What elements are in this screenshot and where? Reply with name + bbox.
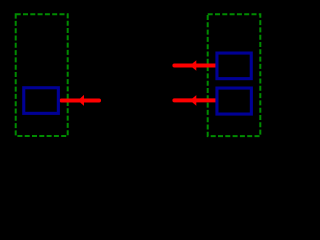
wire: lower arrow out of right block <box>174 95 215 106</box>
right upper block (blue) <box>217 53 251 79</box>
right module dashed boundary box <box>208 14 261 136</box>
wire: arrow into left block <box>61 95 99 106</box>
right lower block (blue) <box>217 88 251 114</box>
wire: upper arrow out of right block <box>174 60 215 71</box>
left block (blue) <box>24 88 59 114</box>
left module dashed boundary box <box>16 14 68 136</box>
